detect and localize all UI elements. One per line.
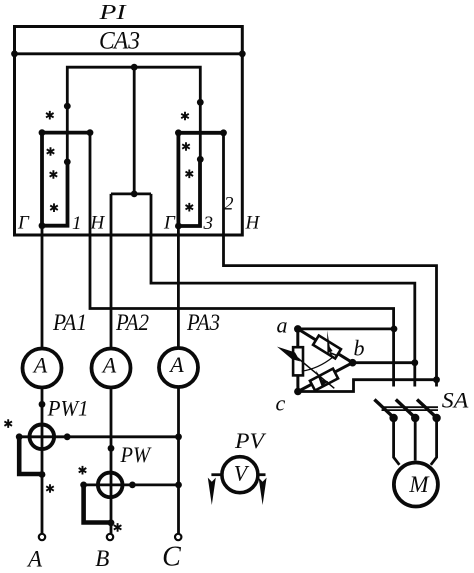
phase B wire lower [108,389,115,534]
rheostat side c-b [298,363,353,392]
motor feed wire 2 [414,418,417,461]
label SA [442,387,469,412]
svg-text:M: M [408,472,430,497]
terminal label Г (left) [17,213,30,234]
terminal label Н (left) [90,213,106,234]
terminal label Н (right) [245,213,261,234]
phase A wire lower [39,389,46,534]
terminal label 2 [224,194,234,215]
asterisk PW1 current [46,484,54,493]
label PV [234,428,267,453]
wire bridge to switch pole 2 [151,194,415,387]
svg-text:PA3: PA3 [186,310,220,335]
svg-text:С: С [162,542,181,573]
wattmeter PW current loop [84,485,111,523]
wattmeter PW1 voltage wire [16,433,179,440]
svg-text:PV: PV [234,428,267,453]
label PW [120,442,152,467]
terminal label 3 [203,213,214,234]
svg-text:c: c [276,391,286,416]
svg-text:PA2: PA2 [115,310,149,335]
wire 2 to switch pole 3 [224,133,437,387]
svg-text:2: 2 [224,194,234,215]
switch SA blade 1 [374,400,394,419]
rheostat coupling arc [302,358,332,372]
rheostat adjust arrow c-b [316,370,329,386]
svg-text:1: 1 [72,213,82,234]
node b [349,336,365,367]
svg-text:Г: Г [17,213,30,234]
wattmeter PW1 [30,425,55,450]
phase C wire upper [177,226,180,348]
svg-text:В: В [95,546,109,571]
polarity asterisks winding 2 [181,112,189,121]
node a [277,313,302,338]
wattmeter PW1 current loop [19,437,42,474]
voltmeter PV left probe [208,475,222,505]
current winding 1 (left) [39,129,94,229]
voltmeter PV [222,457,258,493]
switch SA blade 2 [396,400,416,419]
label CA3 [99,25,140,54]
svg-text:3: 3 [203,213,214,234]
switch SA pivot dots [389,414,440,422]
terminal B [95,534,113,571]
motor M [394,463,438,507]
phase C wire lower [175,389,182,534]
rheostat side a-c [293,329,303,392]
svg-text:SA: SA [442,387,469,412]
svg-text:Н: Н [90,213,106,234]
motor feed wire 3 [431,418,437,465]
phase A wire upper [41,226,44,348]
svg-text:PW1: PW1 [47,395,89,420]
voltage coil middle wire [131,67,138,197]
svg-text:A: A [101,353,117,378]
node c [276,388,302,416]
svg-text:А: А [26,546,43,571]
terminal C [162,534,181,573]
energy meter PI label [98,0,127,24]
label PW1 [47,395,89,420]
wire Н1 to switch pole 1 [90,133,394,387]
polarity asterisks winding 1 [46,111,54,120]
terminal label 1 [72,213,82,234]
svg-text:СА3: СА3 [99,25,140,54]
phase B wire upper [110,194,113,348]
rheostat adjust arrow a-b [327,330,336,357]
voltage coil bridge rectangle top [111,192,151,195]
switch SA blade 3 [417,400,437,419]
label PA3 [186,310,220,335]
svg-text:A: A [32,353,48,378]
node c wire [298,376,440,391]
wattmeter PW [98,473,123,498]
svg-text:PI: PI [98,0,127,24]
svg-text:PA1: PA1 [52,310,87,335]
label PA2 [115,310,149,335]
switch SA link bars [382,407,439,410]
node a wire [298,326,398,333]
energy meter CA3 outer box [15,27,243,236]
svg-text:Г: Г [163,213,176,234]
label PA1 [52,310,87,335]
svg-text:a: a [277,313,288,338]
terminal label Г (right) [163,213,176,234]
node b wire [353,359,419,366]
rheostat side a-b [298,329,353,363]
current winding 2 (right) [175,129,227,229]
CA3 name band line [11,50,246,57]
ammeter PA1 [23,349,62,388]
svg-text:b: b [354,336,365,361]
svg-text:PW: PW [120,442,152,467]
wattmeter PW voltage wire [80,482,179,489]
rheostat adjust arrow a-c [277,347,334,389]
svg-text:A: A [168,352,184,377]
voltmeter PV right probe [258,475,267,505]
ammeter PA3 [159,348,198,387]
motor feed wire 1 [394,418,400,465]
voltage circuit top wire (inner loop) [64,64,204,166]
terminal A [26,534,45,572]
asterisk PW1 voltage [4,419,12,428]
ammeter PA2 [92,349,131,388]
asterisk PW current [114,523,122,532]
svg-text:Н: Н [245,213,261,234]
asterisk PW voltage [79,466,87,475]
